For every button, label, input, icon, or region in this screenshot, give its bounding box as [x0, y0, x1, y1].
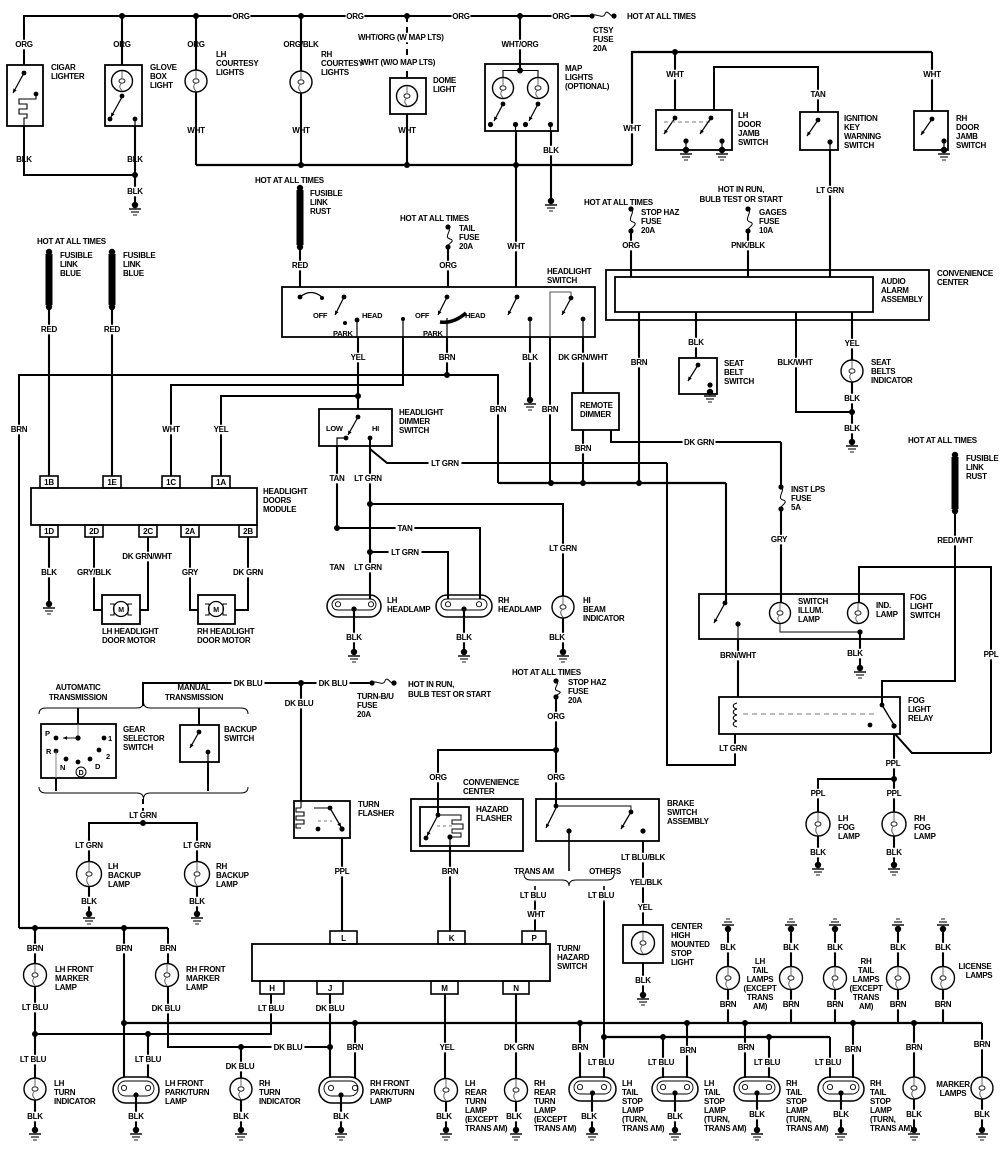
svg-text:DOOR MOTOR: DOOR MOTOR — [197, 636, 251, 645]
RH door jamb switch box — [914, 111, 948, 150]
label BLK tail stop 2 — [666, 1112, 685, 1122]
svg-text:TRANS AM): TRANS AM) — [622, 1124, 665, 1133]
wire BLK LH fog — [817, 836, 819, 863]
svg-text:RH: RH — [870, 1079, 882, 1088]
brake switch pole2 output — [640, 828, 645, 833]
glove box lamp — [112, 71, 133, 92]
label BLK tail lamp 2 — [782, 943, 801, 953]
hazard flasher contact low — [424, 836, 429, 841]
svg-text:FOG: FOG — [908, 696, 925, 705]
wire backup switch feed — [198, 708, 200, 725]
label YEL rear — [438, 1043, 457, 1053]
svg-text:LH FRONT: LH FRONT — [165, 1079, 204, 1088]
node LT BLU bus lamp3 — [766, 1034, 772, 1040]
svg-text:HOT IN RUN,: HOT IN RUN, — [718, 185, 764, 194]
svg-text:TAIL: TAIL — [459, 224, 476, 233]
svg-text:LINK: LINK — [123, 260, 141, 269]
remote dimmer box — [572, 393, 619, 430]
ground seat belts indicator — [849, 439, 855, 445]
svg-text:BLK: BLK — [233, 1112, 249, 1121]
label ORG cigar drop — [15, 40, 34, 50]
wire WHT map lamp output — [515, 131, 517, 165]
wire gear selector feed — [77, 708, 79, 724]
lamp SEAT BELTS indicator — [841, 360, 863, 382]
fuse CTSY FUSE 20A — [589, 13, 594, 18]
svg-text:BLK: BLK — [543, 146, 559, 155]
headlight switch g1 yel contact — [355, 318, 360, 323]
wire WHT headlight-switch feed — [515, 165, 517, 287]
svg-text:HEADLIGHT: HEADLIGHT — [263, 487, 308, 496]
svg-text:RED: RED — [41, 325, 58, 334]
svg-text:LAMPS: LAMPS — [853, 975, 881, 984]
svg-text:BLK: BLK — [41, 568, 57, 577]
node ORG junction — [553, 747, 559, 753]
fuse TAIL FUSE 20A — [445, 224, 450, 229]
headlight switch g1 arc — [300, 293, 322, 298]
LH door jamb pole2 contact — [709, 116, 714, 121]
wire g2 brn stub — [446, 318, 448, 337]
RH tail stop lamp 4 — [818, 1077, 864, 1101]
wire TAN to RH headlamp — [337, 528, 480, 599]
wire DK BLU J drop — [329, 994, 331, 1078]
svg-text:OFF: OFF — [415, 311, 430, 320]
ground center stop light — [640, 992, 646, 998]
svg-text:LT GRN: LT GRN — [431, 459, 459, 468]
svg-text:LAMPS: LAMPS — [940, 1089, 968, 1098]
label DK BLU inline 1 — [232, 679, 265, 689]
svg-text:LAMP: LAMP — [870, 1106, 893, 1115]
node BRN bus lamp4 — [850, 1020, 856, 1026]
svg-text:LH: LH — [108, 862, 119, 871]
LH front park/turn lamp — [113, 1077, 159, 1103]
svg-text:TURN: TURN — [54, 1088, 76, 1097]
label ORG bus inline 1 — [232, 12, 251, 22]
svg-text:REMOTE: REMOTE — [580, 401, 614, 410]
LH tail stop lamp 2 — [652, 1077, 698, 1101]
svg-text:BRN: BRN — [783, 1000, 800, 1009]
svg-text:MODULE: MODULE — [263, 505, 297, 514]
label BLK LH rear turn — [435, 1112, 454, 1122]
svg-text:FUSE: FUSE — [791, 494, 812, 503]
node DK BLU RH turn ind — [238, 1044, 244, 1050]
label BRN tail lamp 1 — [719, 1000, 738, 1010]
ground RH turn indicator — [238, 1127, 244, 1133]
svg-text:LH HEADLIGHT: LH HEADLIGHT — [102, 627, 159, 636]
wire RED to headlight switch — [299, 247, 301, 287]
wire BRN tail lamp 5 — [942, 989, 944, 1023]
wire g2 park to 1C line — [402, 319, 404, 337]
headlight switch g3 feed contact — [515, 295, 520, 300]
wire PPL ind lamp link — [859, 567, 991, 753]
label LT BLU LH marker — [19, 1003, 52, 1013]
lamp LH rear turn — [435, 1079, 458, 1102]
svg-text:TAN: TAN — [329, 474, 345, 483]
svg-text:WARNING: WARNING — [844, 132, 881, 141]
svg-text:LH: LH — [704, 1079, 715, 1088]
svg-text:BLK: BLK — [436, 1112, 452, 1121]
svg-text:N: N — [60, 763, 65, 772]
svg-text:DK BLU: DK BLU — [274, 1043, 303, 1052]
wire BLK glove down — [134, 126, 136, 175]
wire LT GRN down to fog relay — [667, 463, 735, 765]
node map lights feed — [517, 68, 523, 74]
wire BLK LH park lamp — [135, 1095, 137, 1128]
node TAN junction — [334, 525, 340, 531]
center high mounted stop light box — [623, 925, 663, 963]
svg-text:LH FRONT: LH FRONT — [55, 965, 94, 974]
fuse INST LPS FUSE 5A — [778, 484, 783, 489]
svg-text:BLK: BLK — [581, 1112, 597, 1121]
svg-text:HAZARD: HAZARD — [476, 805, 509, 814]
svg-text:MAP: MAP — [565, 64, 583, 73]
ground tail stop 1 — [589, 1127, 595, 1133]
svg-text:SWITCH: SWITCH — [667, 808, 698, 817]
label BLK marker 2 — [973, 1110, 992, 1120]
connector H — [260, 981, 284, 994]
label DK BLU inline 2 — [317, 679, 350, 689]
seat belt switch contact — [696, 363, 701, 368]
ignition switch blade — [807, 120, 818, 136]
label RED blue link 1 — [40, 325, 59, 335]
svg-text:(TURN,: (TURN, — [704, 1115, 730, 1124]
wire LT BLU LH turn bus — [35, 994, 271, 1034]
svg-text:GEAR: GEAR — [123, 725, 146, 734]
connector 1C — [162, 476, 180, 488]
svg-text:DK GRN/WHT: DK GRN/WHT — [122, 552, 172, 561]
label BLK/WHT — [775, 358, 814, 368]
wire backup switch output — [207, 752, 209, 762]
LH tail stop lamp 1 — [569, 1077, 616, 1101]
svg-text:WHT: WHT — [162, 425, 180, 434]
svg-text:PPL: PPL — [887, 789, 902, 798]
brake switch pole1 output — [566, 828, 571, 833]
svg-text:J: J — [328, 984, 332, 993]
svg-text:1D: 1D — [44, 527, 54, 536]
wire BLK RH fog — [893, 836, 895, 863]
svg-text:TRANS AM): TRANS AM) — [465, 1124, 508, 1133]
label BLK LH turn ind — [26, 1112, 45, 1122]
label GRY 2A — [181, 568, 200, 578]
svg-text:BLK: BLK — [974, 1110, 990, 1119]
svg-text:AUTOMATIC: AUTOMATIC — [55, 683, 100, 692]
ground tail stop 2 — [672, 1127, 678, 1133]
svg-text:LOW: LOW — [326, 424, 344, 433]
svg-text:INST LPS: INST LPS — [791, 485, 826, 494]
svg-text:HEADLAMP: HEADLAMP — [387, 605, 431, 614]
svg-text:BLK: BLK — [783, 943, 799, 952]
backup switch output contact — [206, 750, 211, 755]
wire YEL branch to 1A — [221, 396, 358, 476]
label YEL/BLK — [627, 878, 664, 888]
glove box switch blade — [111, 97, 122, 117]
wire brake switch pole1 down — [568, 831, 570, 871]
gear selector circled D — [76, 767, 86, 777]
svg-text:20A: 20A — [593, 44, 607, 53]
svg-text:K: K — [449, 934, 455, 943]
fog relay coil — [733, 703, 737, 727]
hazard flasher dashed link — [437, 825, 452, 827]
wire RED to 1E — [111, 307, 113, 476]
svg-text:SWITCH: SWITCH — [224, 734, 255, 743]
dome light box — [390, 78, 426, 114]
wire LT GRN to RH headlamp — [370, 552, 448, 599]
svg-text:RH: RH — [498, 596, 510, 605]
svg-text:(OPTIONAL): (OPTIONAL) — [565, 82, 610, 91]
backup switch blade — [190, 732, 199, 748]
svg-text:CENTER: CENTER — [463, 787, 495, 796]
svg-text:WHT/ORG (W MAP LTS): WHT/ORG (W MAP LTS) — [358, 33, 444, 42]
svg-text:TRANS: TRANS — [747, 993, 774, 1002]
svg-text:FLASHER: FLASHER — [358, 809, 395, 818]
wire LT GRN backup distribution — [89, 823, 197, 838]
label LT GRN horizontal — [429, 459, 462, 469]
svg-text:LT GRN: LT GRN — [354, 563, 382, 572]
svg-text:HOT AT ALL TIMES: HOT AT ALL TIMES — [512, 668, 582, 677]
label WHT LH door jamb — [665, 70, 686, 80]
lamp center stop light — [632, 932, 655, 955]
turn flasher output contact — [339, 826, 344, 831]
wire LT BLU lamp1 right pin — [603, 1037, 605, 1078]
svg-text:BLK: BLK — [688, 338, 704, 347]
headlight switch g2 park wire contact — [401, 317, 405, 321]
brace transmission bottom — [39, 787, 248, 799]
wire RED to 1B — [48, 307, 50, 476]
svg-text:LAMP: LAMP — [465, 1106, 488, 1115]
label BLK LH headlamp — [345, 633, 364, 643]
lamp LH courtesy lights — [185, 70, 207, 92]
brake switch pole1 contact — [554, 804, 559, 809]
ground RH rear turn — [513, 1127, 519, 1133]
label ORG brake feed 1 — [547, 712, 566, 722]
svg-text:TRANS AM): TRANS AM) — [870, 1124, 913, 1133]
label BRN LH park — [115, 944, 134, 954]
label DK GRN 2B — [232, 568, 265, 578]
svg-text:LT GRN: LT GRN — [391, 548, 419, 557]
svg-text:LIGHTS: LIGHTS — [321, 68, 350, 77]
svg-text:LINK: LINK — [310, 198, 328, 207]
svg-text:ORG: ORG — [452, 12, 470, 21]
svg-text:PPL: PPL — [984, 650, 999, 659]
svg-text:LH: LH — [465, 1079, 476, 1088]
svg-text:BOX: BOX — [150, 72, 168, 81]
svg-text:DOME: DOME — [433, 76, 457, 85]
ignition switch output contact — [827, 139, 832, 144]
svg-text:RH: RH — [914, 814, 926, 823]
dimmer input contact — [356, 415, 361, 420]
label BRN tail lamp 5 — [934, 1000, 953, 1010]
svg-text:GRY: GRY — [771, 535, 788, 544]
hazard flasher output contact — [447, 834, 452, 839]
wire BLK LH headlamp — [353, 611, 355, 650]
svg-text:KEY: KEY — [844, 123, 861, 132]
node junction BLK cigar/glove — [132, 172, 138, 178]
map lights box — [485, 64, 558, 131]
svg-text:AM): AM) — [753, 1002, 768, 1011]
svg-text:1E: 1E — [107, 478, 117, 487]
svg-text:(EXCEPT: (EXCEPT — [465, 1115, 498, 1124]
svg-text:TURN/: TURN/ — [557, 944, 581, 953]
lamp RH turn indicator — [230, 1078, 252, 1100]
label WHT P — [526, 910, 547, 920]
label RED rust link — [291, 261, 310, 271]
svg-text:M: M — [213, 607, 219, 614]
label ORG bus inline 4 — [552, 12, 571, 22]
svg-text:FUSIBLE: FUSIBLE — [966, 454, 999, 463]
svg-text:GLOVE: GLOVE — [150, 63, 178, 72]
svg-text:LH: LH — [738, 111, 749, 120]
svg-text:10A: 10A — [759, 226, 773, 235]
svg-text:BLK: BLK — [667, 1112, 683, 1121]
svg-text:STOP: STOP — [622, 1097, 644, 1106]
wire GRY to fog switch illum lamp — [780, 509, 782, 603]
svg-text:LT BLU: LT BLU — [588, 1058, 615, 1067]
svg-text:BLK: BLK — [333, 1112, 349, 1121]
wire LT GRN dimmer down — [369, 446, 371, 599]
turn/hazard switch box — [252, 944, 550, 981]
svg-text:LICENSE: LICENSE — [959, 962, 993, 971]
fog switch blade — [714, 603, 725, 623]
svg-text:OFF: OFF — [313, 311, 328, 320]
wire BLK RH park lamp — [340, 1095, 342, 1128]
svg-text:BRN/WHT: BRN/WHT — [720, 651, 756, 660]
label ORG bus inline 2 — [346, 12, 365, 22]
cigar lighter switch contact top — [22, 71, 27, 76]
svg-text:DK GRN: DK GRN — [684, 438, 715, 447]
svg-text:DK GRN/WHT: DK GRN/WHT — [558, 353, 608, 362]
map lights lamp left — [493, 78, 514, 99]
label BLK glove ground — [126, 187, 145, 197]
label PPL LH fog — [809, 789, 828, 799]
label DK GRN/WHT — [556, 353, 609, 363]
lamp RH rear turn — [505, 1079, 528, 1102]
svg-text:TAN: TAN — [329, 563, 345, 572]
wire DK BLU RH marker down — [168, 986, 331, 1047]
headlight dimmer switch box — [319, 409, 392, 446]
svg-text:SEAT: SEAT — [724, 359, 744, 368]
label PPL right side — [982, 650, 1000, 660]
svg-text:LH: LH — [755, 957, 766, 966]
svg-text:BLK: BLK — [844, 394, 860, 403]
lamp LH fog lamp — [806, 812, 830, 836]
gear selector switch box — [41, 724, 116, 778]
svg-text:OTHERS: OTHERS — [589, 867, 622, 876]
svg-text:SWITCH: SWITCH — [399, 426, 430, 435]
svg-text:TAN: TAN — [810, 90, 826, 99]
node LT GRN rh junction — [367, 549, 373, 555]
connector 2C — [139, 525, 157, 537]
ignition key warning switch box — [800, 112, 838, 150]
svg-text:BRN: BRN — [738, 1043, 755, 1052]
svg-text:LH: LH — [216, 50, 227, 59]
connector J — [317, 981, 343, 994]
svg-text:LH: LH — [838, 814, 849, 823]
map light BLK contact — [548, 122, 553, 127]
node LT GRN backup junction — [140, 820, 146, 826]
RH front park/turn lamp — [319, 1077, 363, 1103]
svg-text:FOG: FOG — [838, 823, 855, 832]
wire DK GRN 2B to RH motor — [235, 537, 248, 610]
brake switch link wire — [556, 806, 631, 812]
wire WHT bus riser to door jambs — [632, 52, 932, 165]
fog light switch box — [699, 594, 904, 639]
svg-text:LT BLU: LT BLU — [754, 1058, 781, 1067]
svg-text:20A: 20A — [641, 226, 655, 235]
wire DK BLU RH turn indicator — [240, 1047, 242, 1078]
svg-text:FUSE: FUSE — [641, 217, 662, 226]
svg-text:TRANS AM): TRANS AM) — [704, 1124, 747, 1133]
label BRN headlight switch out — [438, 353, 457, 363]
svg-text:CENTER: CENTER — [937, 278, 969, 287]
label TAN dimmer 2 — [328, 563, 347, 573]
wire BLK tail stop 3 — [756, 1094, 758, 1128]
wire ORG LH courtesy drop — [195, 16, 197, 70]
svg-text:LIGHT: LIGHT — [908, 705, 931, 714]
ground headlight switch BLK — [527, 397, 533, 403]
label BLK center stop — [634, 976, 653, 986]
label YEL seat belts — [843, 339, 862, 349]
ground tail stop 3 — [754, 1127, 760, 1133]
wire BLK audio to seat belt switch — [695, 312, 697, 358]
svg-text:TAN: TAN — [397, 524, 413, 533]
node junction map lights ORG — [517, 13, 523, 19]
connector 2D — [85, 525, 103, 537]
svg-text:BRN: BRN — [631, 358, 648, 367]
svg-text:TURN: TURN — [465, 1097, 487, 1106]
svg-text:LT BLU: LT BLU — [520, 891, 547, 900]
label LT GRN dimmer 2 — [352, 563, 385, 573]
node BLK junction seat belts — [849, 409, 855, 415]
svg-text:BLK: BLK — [81, 897, 97, 906]
wire PPL to LH fog lamp — [818, 779, 894, 812]
svg-text:COURTESY: COURTESY — [321, 59, 364, 68]
fusible link blue 2 — [109, 249, 115, 255]
svg-text:COURTESY: COURTESY — [216, 59, 259, 68]
svg-text:ORG: ORG — [15, 40, 33, 49]
label YEL 1A — [212, 425, 231, 435]
wire ORG to audio alarm — [630, 231, 632, 277]
svg-text:LAMP: LAMP — [838, 832, 861, 841]
svg-text:RH: RH — [534, 1079, 546, 1088]
label ORG LH courtesy drop — [187, 40, 206, 50]
label BLK RH park lamp — [332, 1112, 351, 1122]
wire WHT courtesy bus — [196, 164, 632, 166]
svg-text:FUSE: FUSE — [759, 217, 780, 226]
svg-text:LAMP: LAMP — [216, 880, 239, 889]
fog switch contact top — [723, 601, 728, 606]
svg-text:DK BLU: DK BLU — [152, 1004, 181, 1013]
label LT BLU lamp4 — [812, 1058, 845, 1068]
convenience center box (audio) — [606, 270, 929, 320]
svg-text:(EXCEPT: (EXCEPT — [850, 984, 883, 993]
label BRN RH marker — [159, 944, 178, 954]
svg-text:(TURN,: (TURN, — [786, 1115, 812, 1124]
svg-text:ALARM: ALARM — [881, 286, 909, 295]
svg-text:STOP HAZ: STOP HAZ — [641, 208, 680, 217]
label LT BLU trans am — [517, 891, 550, 901]
headlight switch g4 feed path — [550, 292, 571, 337]
svg-text:LT BLU/BLK: LT BLU/BLK — [621, 853, 665, 862]
ground fog switch — [857, 665, 863, 671]
label BLK tail lamp 3 — [826, 943, 845, 953]
headlight switch g3 blade — [508, 297, 517, 315]
node BRN bus marker 1 — [911, 1020, 917, 1026]
label YEL center stop — [636, 903, 655, 913]
svg-text:IGNITION: IGNITION — [844, 114, 878, 123]
ground RH backup lamp — [194, 911, 200, 917]
label TAN dimmer 1 — [328, 474, 347, 484]
svg-text:BLK: BLK — [749, 1110, 765, 1119]
label BRN marker 1 — [905, 1043, 924, 1053]
